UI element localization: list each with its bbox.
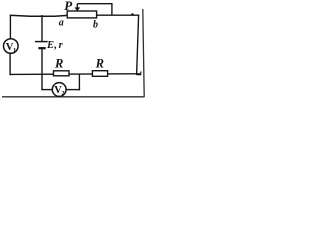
wire bottom horizontal bbox=[10, 73, 140, 76]
svg-text:a: a bbox=[59, 18, 64, 29]
wire left vertical upper bbox=[9, 15, 11, 39]
svg-text:b: b bbox=[93, 19, 98, 30]
battery E,r short plate bbox=[38, 47, 45, 49]
svg-text:R: R bbox=[95, 56, 104, 70]
potentiometer P body bbox=[67, 11, 96, 18]
junction dot on b wire bbox=[131, 13, 133, 15]
battery E,r long plate bbox=[35, 41, 48, 43]
wire wiper top horizontal bbox=[77, 3, 112, 5]
svg-text:E,r: E,r bbox=[46, 40, 64, 51]
wire left vertical lower bbox=[9, 53, 11, 75]
battery wire upper bbox=[41, 15, 43, 42]
wire from terminal b to right corner bbox=[96, 14, 139, 16]
figure border bottom bbox=[2, 96, 145, 98]
wire V2 right vertical up bbox=[78, 75, 80, 91]
wire wiper down to b wire bbox=[111, 4, 113, 16]
svg-text:R: R bbox=[54, 57, 63, 71]
svg-text:2: 2 bbox=[61, 90, 64, 97]
battery wire lower / V2 left drop bbox=[41, 49, 43, 90]
figure border right bbox=[143, 9, 144, 97]
svg-text:P: P bbox=[64, 0, 73, 13]
wire V2 left horizontal bbox=[41, 89, 52, 91]
wire top horizontal bbox=[10, 14, 68, 17]
resistor R1 bbox=[54, 71, 70, 76]
wire corner overshoot bottom-right bbox=[136, 72, 141, 75]
wire right vertical (main loop) bbox=[137, 15, 139, 75]
svg-text:1: 1 bbox=[13, 47, 16, 54]
wire V2 right horizontal bbox=[66, 89, 80, 91]
potentiometer wiper arrow bbox=[74, 4, 80, 12]
resistor R2 bbox=[92, 71, 107, 77]
voltmeter V1 bbox=[4, 39, 19, 54]
voltmeter V2 bbox=[52, 83, 66, 97]
